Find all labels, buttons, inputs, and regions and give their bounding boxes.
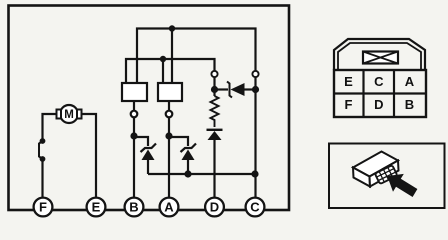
node junction D2 bottom <box>184 170 191 177</box>
relay connector pin block <box>375 165 398 184</box>
wire right bus down to C <box>254 78 256 198</box>
svg-text:M: M <box>64 109 74 121</box>
wire K2 output to terminal A <box>168 101 170 197</box>
node junction B line <box>130 132 137 139</box>
terminal C <box>246 198 265 217</box>
svg-text:E: E <box>92 200 101 215</box>
svg-text:B: B <box>405 97 414 112</box>
motor brush left <box>57 110 62 119</box>
wire motor loop left <box>43 114 58 141</box>
terminal A <box>160 198 179 217</box>
wire branch to zener D1 <box>134 137 148 146</box>
terminal D <box>205 198 224 217</box>
terminal F <box>34 198 53 217</box>
wire motor loop right to terminal E <box>81 114 97 197</box>
relay 3d body left face <box>353 168 370 187</box>
node junction right bus diode <box>252 86 259 93</box>
wire branch to zener D2 <box>169 137 188 146</box>
contact pin symbol below K1 <box>131 111 138 118</box>
node junction A line <box>165 132 172 139</box>
connector point circle left <box>211 71 217 77</box>
relay location box <box>329 144 445 209</box>
motor brush right <box>77 110 82 119</box>
wire zener D1 to bottom net <box>147 160 149 174</box>
connector keyway X box <box>363 52 398 64</box>
svg-text:A: A <box>405 74 415 89</box>
node junction on net2 <box>160 56 166 62</box>
switch S1 contact dots <box>40 138 46 144</box>
switch S1 blade <box>39 141 43 159</box>
svg-text:E: E <box>344 74 353 89</box>
connector pinout shell <box>334 39 426 117</box>
svg-text:F: F <box>345 97 353 112</box>
diode D3 <box>207 130 223 140</box>
svg-text:D: D <box>374 97 383 112</box>
svg-text:C: C <box>250 200 260 215</box>
pinout grid <box>334 70 426 117</box>
node junction C line bottom <box>251 170 258 177</box>
svg-text:A: A <box>164 200 174 215</box>
wire coil1 feed from net2 junction <box>162 59 164 83</box>
relay 3d connector face <box>370 161 399 187</box>
diode D4 horizontal <box>215 82 256 98</box>
terminal E <box>87 198 106 217</box>
wire coil2 feed from net1 junction <box>171 29 173 84</box>
node junction on net1 <box>169 25 175 31</box>
contact pin symbol below K2 <box>166 111 173 118</box>
svg-text:F: F <box>39 200 47 215</box>
arrow pointing at connector <box>387 174 417 197</box>
zener diode D1 <box>141 144 157 161</box>
relay coil K2 <box>158 83 182 101</box>
motor M armature circle <box>60 105 78 123</box>
svg-text:D: D <box>210 200 219 215</box>
resistor R1 <box>211 96 219 127</box>
relay coil K1 <box>122 83 147 101</box>
wire top bus (net 1) <box>137 29 256 84</box>
wire second bus (net 2) <box>126 59 215 83</box>
wire bottom net to C <box>148 173 255 175</box>
node junction sensor branch <box>211 86 218 93</box>
svg-text:B: B <box>129 200 138 215</box>
relay unit outline frame <box>9 6 290 211</box>
wire sensor branch vertical <box>213 77 215 96</box>
wire diode D3 to terminal D <box>213 140 215 197</box>
svg-text:C: C <box>374 74 384 89</box>
terminal B <box>125 198 144 217</box>
zener diode D2 <box>181 144 197 161</box>
wire zener D2 to bottom net <box>187 160 189 174</box>
wire K1 output to terminal B <box>133 101 135 197</box>
connector point circle right <box>252 71 258 77</box>
wire switch to terminal F <box>41 159 43 197</box>
relay 3d body top face <box>353 152 398 177</box>
